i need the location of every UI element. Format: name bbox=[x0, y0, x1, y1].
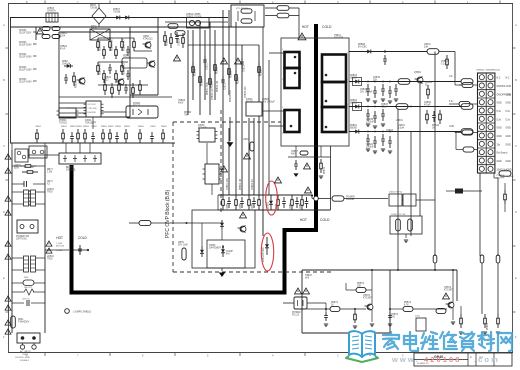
svg-text:0511P 2A0V: 0511P 2A0V bbox=[19, 81, 32, 84]
varistor VB01 row bbox=[12, 291, 24, 293]
wire guts link 2 bbox=[98, 61, 128, 63]
optocoupler PC5B02 bbox=[294, 297, 307, 309]
warning triangle bundle 1 bbox=[174, 55, 181, 61]
svg-text:LFB03: LFB03 bbox=[47, 189, 54, 191]
svg-text:T5B01: T5B01 bbox=[334, 35, 341, 37]
wire bundle v7 bbox=[222, 10, 224, 195]
wire primary pin link lower bbox=[263, 110, 285, 112]
svg-text:COLD: COLD bbox=[322, 25, 332, 29]
warning triangle ICB06 bbox=[221, 166, 228, 172]
svg-text:C8B41: C8B41 bbox=[150, 126, 156, 128]
capacitor C8B52 bbox=[176, 32, 178, 36]
wire ic down bbox=[206, 143, 208, 164]
warning triangle primary input bbox=[37, 28, 44, 34]
capacitor C5B32 bbox=[374, 86, 376, 91]
svg-text:0.22: 0.22 bbox=[104, 80, 109, 82]
resistor R8B34 bbox=[84, 129, 86, 133]
warning triangle row C_B09 bbox=[46, 248, 52, 253]
wire hot-cold isolation barrier (thick) bbox=[72, 24, 317, 293]
svg-text:KIA431: KIA431 bbox=[246, 101, 254, 104]
snubber box top right bbox=[231, 5, 264, 27]
inductor L5B04 bbox=[396, 104, 408, 110]
svg-text:R8B31: R8B31 bbox=[61, 126, 67, 128]
svg-text:TEA1507P: TEA1507P bbox=[85, 122, 97, 125]
svg-text:C5B44: C5B44 bbox=[386, 130, 394, 132]
nested ic box ICB05 bbox=[207, 240, 245, 268]
dashed box PFC OVP block left edge bbox=[172, 122, 174, 272]
svg-text:D: D bbox=[3, 210, 5, 214]
capacitor C5B44 bbox=[389, 136, 391, 141]
wire diode feed bbox=[446, 190, 455, 192]
resistor R5B75 bbox=[436, 308, 446, 313]
transformer secondary winding 3 bbox=[322, 107, 346, 132]
wire bus to bridge bbox=[65, 143, 67, 153]
capacitor C8B33 bbox=[77, 129, 79, 133]
svg-text:400V: 400V bbox=[178, 103, 184, 105]
svg-text:B: B bbox=[3, 78, 5, 82]
svg-text:D5B09: D5B09 bbox=[268, 201, 270, 209]
wire ICB01 down bbox=[92, 117, 94, 129]
svg-text:C5B32 102: C5B32 102 bbox=[212, 88, 214, 100]
wire startup vertical bbox=[35, 27, 37, 40]
fusible resistor FR5B1 bbox=[433, 255, 437, 263]
wire guts link 4 bbox=[134, 50, 152, 52]
resistor R5B65 bbox=[504, 190, 506, 194]
wire y200 join bbox=[402, 199, 403, 201]
svg-text:COMP: COMP bbox=[226, 251, 233, 253]
svg-text:R8B15 4K7: R8B15 4K7 bbox=[124, 39, 126, 51]
svg-text:C5B06: C5B06 bbox=[178, 100, 186, 102]
svg-text:PCB01: PCB01 bbox=[133, 103, 141, 105]
inner control box bbox=[192, 210, 255, 268]
resistor R8B24 bbox=[132, 83, 134, 88]
svg-text:R5B16: R5B16 bbox=[231, 70, 233, 78]
junction dots rail C bbox=[367, 106, 369, 108]
dot guts b bbox=[121, 61, 123, 63]
svg-text:LPB63: LPB63 bbox=[47, 8, 55, 10]
shield node circle bbox=[65, 309, 70, 314]
svg-text:CNB01: CNB01 bbox=[22, 354, 29, 356]
svg-text:R5B62: R5B62 bbox=[487, 322, 489, 330]
wire R5B61 up bbox=[460, 306, 462, 314]
svg-text:BYV26C: BYV26C bbox=[358, 47, 367, 49]
svg-text:GND: GND bbox=[497, 103, 502, 105]
fusible resistor FR5B2 bbox=[480, 255, 484, 263]
resistor R8B52 bbox=[170, 33, 172, 38]
watermark book icon bbox=[346, 331, 378, 362]
svg-text:PCB03: PCB03 bbox=[59, 120, 67, 122]
inductor LPB65 bbox=[175, 31, 185, 36]
resistor R5B73 bbox=[354, 311, 356, 314]
wire guts h97 bbox=[59, 96, 172, 98]
svg-text:R5B09: R5B09 bbox=[184, 112, 192, 114]
warning triangle opto bbox=[295, 288, 302, 294]
svg-text:47nF: 47nF bbox=[60, 49, 66, 51]
connector stub PFC input bbox=[139, 220, 151, 225]
capacitor C5B38 bbox=[433, 111, 435, 115]
connector pin row 10 bbox=[479, 150, 484, 155]
wire to barrier bbox=[45, 249, 69, 251]
diode D5B10b dark bbox=[455, 189, 463, 194]
diode D5B03 bbox=[352, 81, 355, 83]
resistor R8B17 bbox=[103, 70, 105, 74]
pill L5B02 bbox=[300, 151, 308, 155]
solid arrow node PFC bbox=[229, 117, 231, 141]
inductor L5B01 bbox=[427, 49, 439, 55]
svg-text:0511P 250V: 0511P 250V bbox=[19, 33, 32, 35]
dot guts a bbox=[109, 37, 111, 39]
wire rail B bbox=[349, 81, 461, 83]
wire base QB71 bbox=[307, 308, 330, 310]
svg-text:GND: GND bbox=[497, 161, 502, 163]
resistor R8B15 bbox=[121, 38, 123, 42]
capacitor C5B21 bbox=[228, 197, 230, 201]
svg-text:ICB03: ICB03 bbox=[198, 125, 205, 127]
transistor Q8B2 bbox=[145, 42, 151, 48]
warning triangle standby box bbox=[303, 288, 310, 294]
ic ICB01 TEA1507P bbox=[86, 101, 101, 117]
transformer primary winding upper bbox=[285, 52, 300, 68]
watermark character zi bbox=[460, 332, 474, 351]
connector stub left 4 bbox=[463, 147, 474, 152]
wire bottom box right bbox=[456, 270, 458, 301]
resistor R5B18 bbox=[258, 62, 260, 67]
diode D5B08 top bbox=[123, 17, 125, 19]
common-mode choke LFB03 bbox=[24, 190, 29, 206]
warning triangle ladder 2 bbox=[305, 187, 312, 193]
diode D5B09 (circled) bbox=[270, 195, 272, 201]
wire below connector 1 bbox=[479, 173, 481, 256]
svg-text:DEM SNS: DEM SNS bbox=[88, 112, 97, 114]
wire bundle v2 bbox=[192, 30, 194, 100]
svg-text:R5B34 47K: R5B34 47K bbox=[230, 90, 232, 102]
resistor R5B27 bbox=[301, 195, 303, 200]
svg-text:2KV 1000pF: 2KV 1000pF bbox=[262, 102, 275, 104]
frame zone ticks bbox=[44, 1, 46, 4]
svg-text:CB75 X2: CB75 X2 bbox=[22, 299, 30, 301]
svg-text:R8B32: R8B32 bbox=[70, 126, 76, 128]
svg-text:1N4148: 1N4148 bbox=[62, 64, 71, 66]
svg-text:TLP621: TLP621 bbox=[59, 123, 68, 125]
wire long drop x435 bbox=[434, 52, 436, 257]
wire rail C bbox=[349, 106, 461, 108]
svg-text:L5B04: L5B04 bbox=[398, 125, 405, 127]
warning triangle near transformer bbox=[298, 33, 306, 40]
watermark character jia bbox=[383, 332, 399, 349]
wire xfmr pin down 1 bbox=[295, 146, 297, 157]
transformer secondary winding 2 bbox=[322, 82, 346, 107]
svg-text:FUSEB01: FUSEB01 bbox=[20, 360, 30, 362]
small ic box ICB04 bbox=[246, 102, 262, 116]
svg-text:C8B61: C8B61 bbox=[60, 46, 68, 48]
capacitor C8B41 bbox=[151, 132, 153, 136]
svg-text:R8B21: R8B21 bbox=[104, 77, 112, 79]
svg-text:D5B10 BY228: D5B10 BY228 bbox=[263, 247, 265, 262]
power switch box bbox=[17, 220, 38, 233]
red highlight ellipse 1 bbox=[266, 181, 278, 215]
relay box KB01 bbox=[90, 29, 110, 40]
svg-text:D5B07: D5B07 bbox=[113, 9, 121, 11]
junction dot rail bbox=[434, 50, 436, 52]
svg-text:R5B44: R5B44 bbox=[432, 125, 440, 127]
wire bundle v3 bbox=[199, 22, 201, 115]
title block outline bbox=[414, 353, 512, 366]
line filter LFB02 box bbox=[15, 149, 28, 162]
wire inner box top bbox=[59, 31, 158, 33]
svg-text:R5B17: R5B17 bbox=[238, 76, 240, 84]
wire Q5B72 emitter bbox=[452, 309, 454, 320]
svg-text:1R5K: 1R5K bbox=[240, 203, 242, 209]
resistor R5B21 bbox=[222, 195, 224, 200]
svg-text:VB01 471: VB01 471 bbox=[24, 287, 32, 289]
wire FR5B1 to rail bbox=[434, 263, 436, 270]
watermark character liao bbox=[478, 332, 494, 351]
svg-text:T26UB: T26UB bbox=[113, 12, 121, 14]
capacitor C5B24 bbox=[283, 197, 285, 201]
inductor L5B03 bbox=[398, 79, 410, 85]
connector pin row 2 bbox=[479, 83, 484, 88]
svg-text:C5B12: C5B12 bbox=[225, 82, 227, 90]
capacitor C5B17 bbox=[295, 160, 297, 164]
svg-text:PC123: PC123 bbox=[133, 106, 141, 108]
optocoupler PCB01 bbox=[126, 106, 158, 118]
wire feedthrough right bbox=[318, 198, 331, 200]
resistor R8B37 bbox=[109, 129, 111, 133]
svg-text:0511P 2K0V: 0511P 2K0V bbox=[19, 45, 32, 47]
resistor R5B72 bbox=[356, 287, 366, 292]
capacitor C5B72 bbox=[389, 312, 391, 315]
svg-text:W.B: W.B bbox=[305, 278, 310, 280]
svg-text:FB02: FB02 bbox=[24, 277, 29, 279]
capacitor C8B38 bbox=[116, 132, 118, 136]
common-mode choke LFB04 bbox=[24, 256, 29, 272]
wire base QB72 bbox=[390, 308, 403, 310]
snubber pill 2 bbox=[241, 19, 252, 23]
line filter LFB02b box bbox=[29, 146, 47, 158]
svg-text:C5B20: C5B20 bbox=[424, 102, 432, 104]
svg-text:2K: 2K bbox=[331, 305, 334, 307]
wire feed v C5B08 bbox=[262, 27, 264, 236]
diode pair box bbox=[187, 18, 210, 29]
svg-text:R5B15: R5B15 bbox=[217, 66, 219, 74]
wire bottom box left bbox=[301, 270, 303, 333]
svg-text:1R5K: 1R5K bbox=[300, 203, 302, 209]
svg-text:C5B14: C5B14 bbox=[441, 61, 449, 63]
connector pin row 8 bbox=[479, 133, 484, 138]
small box LP8B bbox=[122, 58, 147, 68]
connector pin row 3 bbox=[479, 91, 484, 96]
svg-text:LP8B: LP8B bbox=[123, 55, 129, 57]
svg-text:DB63: DB63 bbox=[90, 5, 96, 7]
svg-text:1R5K: 1R5K bbox=[252, 203, 254, 209]
svg-text:C8B52: C8B52 bbox=[179, 38, 181, 46]
inductor LPB64 bbox=[168, 24, 178, 29]
svg-text:C5B36: C5B36 bbox=[366, 119, 374, 121]
warning triangle QB05 bbox=[240, 212, 247, 218]
connector CN5B01 body bbox=[478, 73, 495, 173]
capacitor CB05 left bbox=[182, 248, 186, 260]
svg-text:D5B01: D5B01 bbox=[350, 125, 358, 127]
svg-text:R5B72: R5B72 bbox=[357, 283, 365, 285]
wire Q5B72 collector bbox=[452, 270, 454, 301]
resistor R5B61 bbox=[460, 314, 462, 318]
svg-text:R5B33 1M: R5B33 1M bbox=[217, 81, 219, 92]
resistor R8B31 bbox=[62, 129, 64, 133]
watermark character wang bbox=[498, 333, 512, 351]
wire bundle v1 bbox=[187, 30, 189, 115]
wire stub down bbox=[221, 229, 223, 240]
svg-text:C5B08: C5B08 bbox=[262, 99, 270, 101]
resistor R5B43 bbox=[426, 110, 428, 114]
capacitor CB73 bbox=[79, 245, 81, 249]
diode D5B05 bbox=[189, 20, 194, 25]
connector pin row 9 bbox=[479, 141, 484, 146]
svg-text:C8B38: C8B38 bbox=[115, 126, 121, 128]
wire long drop x411 bbox=[410, 132, 412, 237]
svg-text:D8B2: D8B2 bbox=[62, 61, 68, 63]
wire ladder rail bottom bbox=[218, 209, 331, 211]
wire bundle v15 bbox=[258, 45, 260, 102]
svg-text:N.C.: N.C. bbox=[506, 78, 511, 80]
svg-text:400V: 400V bbox=[291, 154, 297, 156]
transistor QB05 bbox=[240, 226, 246, 232]
resistor R5B25 bbox=[277, 195, 279, 200]
wire main top bus bbox=[10, 17, 228, 19]
svg-text:DS2Y: DS2Y bbox=[91, 29, 97, 31]
wire bundle h top bbox=[165, 21, 228, 23]
transistor Q5B01 bbox=[417, 77, 423, 83]
svg-text:100-240V~ A.2A: 100-240V~ A.2A bbox=[15, 356, 30, 359]
svg-text:1: 1 bbox=[347, 79, 348, 81]
resistor RB70 row bbox=[20, 165, 25, 167]
junction dot ladder right bbox=[311, 194, 313, 196]
wire stub feeds bbox=[454, 78, 456, 85]
fusible resistor FR5B3 bbox=[496, 255, 500, 263]
resistor R5B22 bbox=[235, 195, 237, 200]
diode feed D bbox=[221, 220, 223, 223]
svg-text:R8B39: R8B39 bbox=[124, 126, 130, 128]
capacitor C5B10 bbox=[384, 55, 386, 59]
svg-text:SB560: SB560 bbox=[350, 128, 358, 130]
svg-text:GND: GND bbox=[506, 103, 511, 105]
svg-text:KTA1023: KTA1023 bbox=[143, 38, 153, 41]
resistor R8B20 bbox=[73, 72, 75, 76]
resistor R8B11 bbox=[97, 38, 99, 42]
svg-text:GND: GND bbox=[506, 161, 511, 163]
wire bottom box bottom bbox=[302, 332, 390, 334]
resistor R5B15 bbox=[214, 60, 216, 65]
svg-text:D5B03: D5B03 bbox=[350, 75, 358, 77]
resistor block TX5B1 bbox=[390, 216, 422, 234]
wire snubber vertical bbox=[157, 18, 159, 96]
warning triangle Q5B72 bbox=[443, 293, 450, 299]
svg-text:0511P 2A0V: 0511P 2A0V bbox=[19, 56, 32, 59]
resistor R5B19 bbox=[320, 159, 322, 163]
svg-text:BD/COM: BD/COM bbox=[56, 246, 64, 248]
resistor R8B25 bbox=[139, 80, 141, 85]
svg-text:. c o m: . c o m bbox=[474, 355, 498, 364]
svg-text:1K: 1K bbox=[425, 85, 428, 87]
svg-text:RB71: RB71 bbox=[47, 169, 53, 171]
resistor R8B28 bbox=[121, 62, 123, 66]
svg-text:N.C.: N.C. bbox=[497, 78, 502, 80]
transformer secondary winding 1 bbox=[322, 55, 346, 83]
svg-text:Q5B71: Q5B71 bbox=[363, 295, 371, 297]
svg-text:LPB64 LPB65: LPB64 LPB65 bbox=[186, 14, 201, 16]
svg-text:ICB04: ICB04 bbox=[246, 99, 253, 101]
resistor R5B23 bbox=[248, 195, 250, 200]
wire rail D bbox=[349, 131, 461, 133]
svg-text:R8B42: R8B42 bbox=[161, 126, 167, 128]
warning triangles EMI column bbox=[5, 154, 11, 159]
capacitor C8B35 bbox=[92, 132, 94, 136]
svg-text:CP66TA: CP66TA bbox=[47, 10, 56, 13]
diode D8B2 bbox=[64, 65, 67, 67]
transistor Q5B72 bbox=[448, 302, 454, 308]
resistor R8B16 bbox=[97, 62, 99, 66]
wire primary pin link lower2 bbox=[269, 125, 285, 127]
wire under transformer bbox=[288, 156, 331, 158]
svg-text:CTRL GND: CTRL GND bbox=[88, 108, 98, 110]
resistor R8B23 bbox=[118, 80, 120, 85]
svg-text:L-SMPS SHIELD: L-SMPS SHIELD bbox=[73, 311, 91, 314]
svg-text:C5B32: C5B32 bbox=[373, 77, 381, 79]
wire across barrier bbox=[73, 249, 88, 251]
resistor R8B12 bbox=[103, 46, 105, 50]
dashed box PFC OVP block bottom edge bbox=[173, 271, 331, 273]
capacitor C5B43 bbox=[382, 134, 384, 139]
svg-text:R8B11 1K: R8B11 1K bbox=[100, 40, 102, 51]
svg-text:E: E bbox=[515, 276, 517, 280]
wire Q5B71 emitter bbox=[371, 311, 373, 322]
svg-text:R8B36: R8B36 bbox=[101, 126, 107, 128]
svg-text:1: 1 bbox=[347, 52, 348, 54]
wire bundle v8 bbox=[228, 10, 230, 95]
ground TX5B1 bbox=[405, 234, 407, 238]
svg-text:L5B05: L5B05 bbox=[243, 139, 250, 141]
resistor R5B17 bbox=[235, 70, 237, 75]
svg-text:R8B13 10K: R8B13 10K bbox=[112, 39, 114, 51]
svg-text:1: 1 bbox=[282, 79, 283, 81]
wire long drop x420 bbox=[419, 84, 421, 217]
svg-text:1000uF: 1000uF bbox=[366, 122, 374, 124]
svg-text:T26UB: T26UB bbox=[90, 8, 98, 10]
resistor R8B36 bbox=[102, 129, 104, 133]
resistor R8B51 bbox=[164, 31, 166, 36]
svg-text:C5B13: C5B13 bbox=[244, 64, 246, 72]
connector stub 5.3V bbox=[461, 104, 473, 110]
wire bundle v6 bbox=[214, 30, 216, 100]
svg-text:FB01: FB01 bbox=[18, 319, 24, 321]
svg-text:1000uF: 1000uF bbox=[366, 147, 374, 149]
svg-text:SB560: SB560 bbox=[350, 103, 358, 105]
filter pill A4 bbox=[52, 35, 60, 39]
svg-text:1R5K: 1R5K bbox=[227, 203, 229, 209]
warning triangle bundle 3 bbox=[235, 58, 242, 64]
junction dots rail D bbox=[367, 131, 369, 133]
svg-text:ICB05: ICB05 bbox=[209, 245, 216, 247]
wire RB70 bbox=[12, 165, 20, 167]
svg-text:R5B74: R5B74 bbox=[404, 302, 412, 304]
capacitor C5B13 bbox=[241, 58, 243, 62]
capacitor C5B39 bbox=[395, 84, 397, 89]
svg-text:PFC OVP Block (B.B): PFC OVP Block (B.B) bbox=[165, 189, 171, 238]
svg-text:GND: GND bbox=[506, 144, 511, 146]
svg-text:R5B18: R5B18 bbox=[261, 68, 263, 76]
wire column x263 lower bbox=[262, 210, 264, 236]
svg-text:R8B34: R8B34 bbox=[83, 126, 89, 128]
svg-text:COLD: COLD bbox=[78, 236, 88, 240]
